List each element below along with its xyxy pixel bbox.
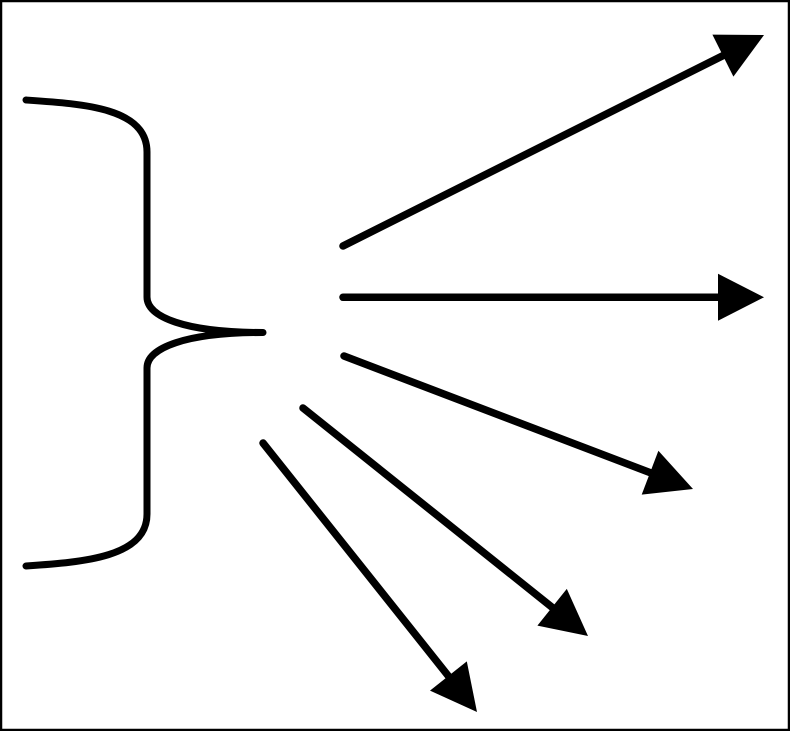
arrow 2 (horizontal right) — [343, 274, 764, 321]
arrow 5 (down-right steepest) — [263, 443, 477, 712]
arrow 4 (down-right steep) — [303, 408, 588, 636]
arrow 1 (up-right) — [343, 35, 764, 246]
arrow 3 (down-right shallow) — [344, 356, 693, 495]
left curly brace — [26, 100, 263, 566]
